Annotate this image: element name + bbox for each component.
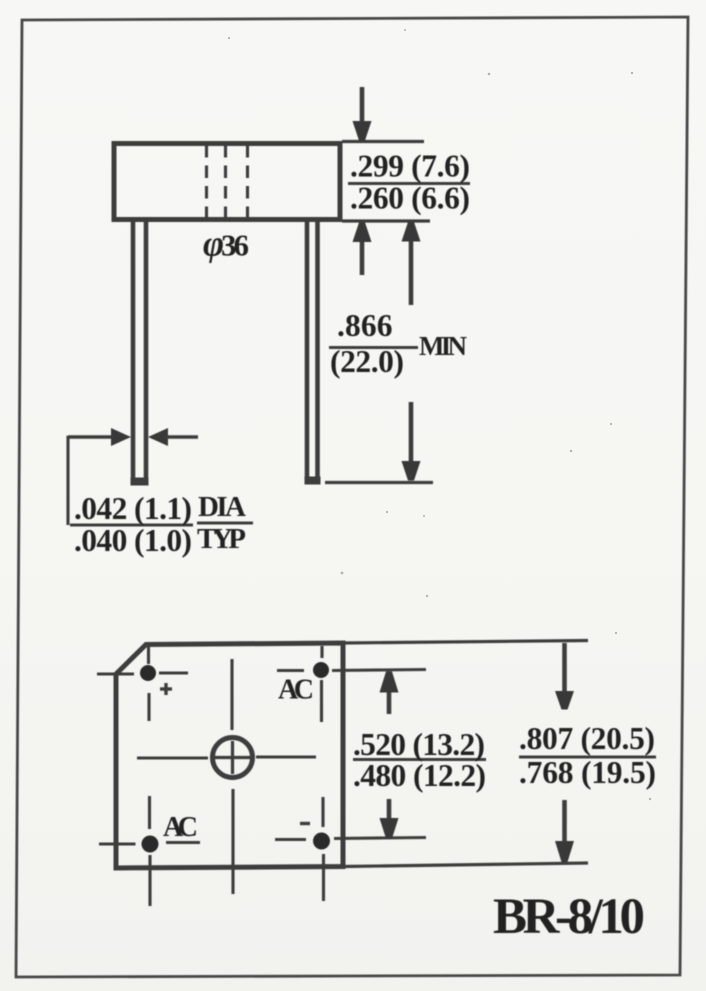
dashed line 1 — [205, 145, 208, 219]
svg-text:(22.0): (22.0) — [330, 344, 404, 379]
centerline v through AC pin (top-right) — [320, 646, 323, 658]
centerline v through AC pin (bottom-left) — [148, 796, 151, 829]
up arrow (.520 top) — [387, 692, 392, 714]
centerline h through - pin (bottom-right) — [275, 838, 306, 841]
extension line top (.299 dim) — [342, 140, 424, 143]
lead 1 (left) — [131, 221, 136, 483]
pin + (top-left) — [140, 665, 156, 681]
centerline h right of circle — [256, 755, 316, 758]
svg-text:.807 (20.5): .807 (20.5) — [519, 721, 655, 756]
svg-text:DIA: DIA — [198, 491, 246, 523]
extension line bottom (.299 dim) — [342, 219, 430, 222]
centerline v through - pin (bottom-right) — [321, 797, 324, 827]
center cross v — [231, 741, 234, 774]
pin AC (top-right) — [313, 662, 329, 678]
svg-text:.040 (1.0): .040 (1.0) — [74, 523, 192, 558]
center circle — [213, 738, 253, 778]
body outline (side view) — [114, 144, 340, 220]
extension line at lead ends (.866 dim) — [325, 481, 433, 484]
lead 2 (right) — [305, 221, 310, 482]
down arrow (.807 bottom) — [562, 800, 567, 843]
down arrow (.866 dim bottom) — [409, 402, 414, 463]
scan specks — [228, 29, 651, 800]
square outline (bottom view) with chamfer — [116, 643, 343, 868]
svg-text:.520 (13.2): .520 (13.2) — [353, 727, 485, 762]
fraction bar (.520/.480) — [353, 758, 486, 761]
top edge extension to .807 — [343, 641, 588, 644]
minus label (bottom-right pin) — [300, 822, 310, 825]
up arrow (.299 dim) — [360, 238, 365, 275]
centerline v below circle — [231, 789, 234, 894]
svg-text:.299 (7.6): .299 (7.6) — [350, 149, 470, 184]
dashed line 2 — [224, 145, 227, 219]
centerline h through AC pin (bottom-left) — [99, 842, 136, 845]
up arrow (.866 dim top) — [409, 238, 414, 305]
pin - (bottom-right) — [313, 833, 330, 850]
dashed line 3 — [246, 145, 249, 219]
bottom edge extension to .807 — [343, 863, 588, 867]
svg-text:BR-8/10: BR-8/10 — [493, 889, 645, 945]
centerline h through AC pin (top-right) — [277, 669, 304, 672]
right-pointing arrow (lead dia) — [68, 435, 114, 438]
svg-text:AC: AC — [278, 675, 314, 706]
left-pointing arrow (lead dia) — [148, 428, 168, 446]
fraction bar (.299/.260) — [348, 182, 470, 185]
svg-text:.042 (1.1): .042 (1.1) — [74, 491, 192, 526]
leader line (lead dia) — [66, 436, 69, 525]
fraction bar (.042/.040) — [70, 523, 193, 526]
centerline h left of circle — [137, 756, 208, 759]
centerline v through + pin — [147, 644, 150, 664]
svg-text:.866: .866 — [337, 308, 393, 343]
plus label (top-left pin) — [160, 687, 172, 690]
svg-text:TYP: TYP — [197, 523, 246, 555]
fraction bar (DIA/TYP) — [197, 521, 253, 524]
down arrow (.807 top) — [562, 643, 567, 694]
svg-text:AC: AC — [163, 812, 198, 843]
fraction bar (.866/(22.0)) — [329, 346, 418, 349]
square right edge emphasis — [342, 643, 346, 867]
centerline h through + pin — [97, 672, 134, 675]
fraction bar (.807/.768) — [519, 755, 656, 758]
svg-text:.260 (6.6): .260 (6.6) — [350, 181, 470, 216]
down arrow (.520 bottom) — [387, 799, 392, 819]
centerline v above circle — [230, 659, 233, 730]
pin AC (bottom-left) — [142, 836, 159, 853]
svg-text:φ36: φ36 — [203, 224, 249, 264]
svg-text:MIN: MIN — [419, 331, 468, 361]
svg-text:.768 (19.5): .768 (19.5) — [519, 755, 656, 790]
svg-text:.480 (12.2): .480 (12.2) — [353, 758, 486, 793]
down arrow (.299 dim) — [360, 87, 365, 126]
center cross h — [215, 756, 250, 759]
